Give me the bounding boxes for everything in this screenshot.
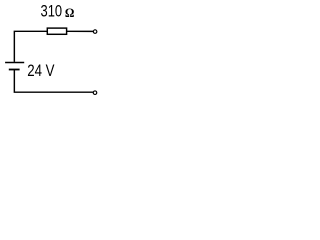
svg-text:310: 310 [41, 3, 63, 21]
svg-text:24 V: 24 V [27, 61, 54, 80]
battery V1 short plate (-) [9, 69, 20, 71]
terminal node bottom (open circle) [93, 91, 97, 95]
wire: battery bottom, bottom-left corner, bottom horizontal to terminal [14, 70, 93, 93]
battery V1 long plate (+) [5, 62, 24, 64]
wire top-left: left vertical riser and top horizontal to resistor [14, 31, 47, 62]
resistor R (box) [47, 28, 66, 34]
svg-text:Ω: Ω [65, 6, 75, 20]
wire: resistor right lead to top terminal [67, 30, 93, 32]
terminal node top (open circle) [93, 30, 97, 33]
